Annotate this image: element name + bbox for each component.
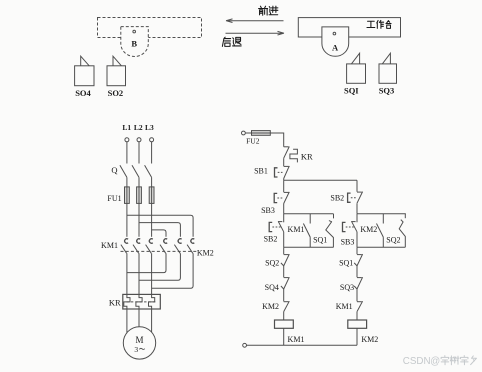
wire KM2 contact to coil KM1 (283, 312, 285, 320)
svg-text:FU2: FU2 (246, 137, 260, 146)
svg-text:SQ3: SQ3 (379, 86, 395, 96)
workbench rectangle (solid, right position) (298, 18, 400, 37)
svg-text:KM1: KM1 (101, 241, 118, 250)
wire coil KM2 to bottom rail (356, 328, 358, 345)
svg-text:SQ4: SQ4 (265, 283, 279, 292)
svg-text:KM2: KM2 (361, 335, 378, 344)
wires from Q to fuses FU1 (126, 177, 128, 187)
label gongzuotai (workbench) (367, 21, 375, 27)
arrow forward (qianjin), pointing left (226, 19, 284, 23)
contactor KM1 main contacts (3 poles) (125, 239, 128, 243)
svg-text:KM1: KM1 (288, 335, 305, 344)
wire KR to SB1 (283, 158, 285, 166)
svg-text:KM2: KM2 (262, 302, 279, 311)
wires from terminals to switch Q (126, 142, 128, 164)
svg-text:SB1: SB1 (254, 166, 268, 175)
svg-text:L1: L1 (122, 123, 131, 132)
wire SB2 to parallel section B (356, 203, 358, 214)
start button SB3 (NO, forward) (283, 180, 285, 192)
rail from left rung to right rung (top) (284, 179, 357, 181)
wire SB3 to parallel section A (283, 204, 285, 214)
crossover wire phase1 to KM2 pole3 (127, 215, 193, 237)
svg-text:SQ1: SQ1 (313, 236, 327, 245)
svg-text:SB3: SB3 (341, 237, 355, 246)
switch Q (3-pole knife switch) (120, 165, 127, 177)
svg-text:KR: KR (109, 298, 121, 308)
label houtui (backward) (222, 37, 230, 46)
parallel section B top rail (357, 213, 406, 215)
svg-text:FU1: FU1 (107, 194, 121, 203)
cam dog B (dashed) (121, 27, 149, 57)
svg-text:CSDN: CSDN (403, 356, 431, 367)
KR heater elements (3 meanders) (124, 294, 130, 309)
svg-text:SQI: SQI (344, 86, 359, 96)
thermal overload relay KR (heater box) (123, 294, 161, 309)
parallel section B bottom rail (357, 246, 405, 248)
limit switch SQ3 (box with lever) (379, 64, 397, 83)
self-hold contact KM2 (NO) (382, 214, 384, 224)
KM1 pole output wires down to KR (126, 253, 128, 294)
motor M 3~ (123, 327, 155, 359)
limit switch contact SQ2 (NO chevron) (404, 214, 406, 218)
svg-text:3: 3 (134, 345, 138, 354)
limit switch SQ2 contact (NC) in rung A (283, 247, 285, 254)
svg-text:SQ3: SQ3 (340, 283, 354, 292)
svg-text:KM1: KM1 (336, 302, 353, 311)
bottom rail (247, 344, 358, 346)
phase wires below fuses feeding KM1 poles (126, 203, 128, 236)
svg-text:SB2: SB2 (264, 234, 278, 243)
svg-text:SB3: SB3 (261, 206, 275, 215)
wire SB1 to junction (283, 179, 285, 181)
compound button SB2 contact (NC) in rung A (283, 214, 285, 223)
control supply terminal (bottom) (243, 343, 247, 347)
svg-text:SQ2: SQ2 (386, 236, 400, 245)
fuse FU1 (three cartridges) (125, 187, 130, 204)
wire FU2 to left rung (270, 133, 283, 147)
wire SB2 contact to bottom rail A (283, 232, 285, 248)
crossover wire phase3 to KM2 pole1 (152, 230, 166, 237)
svg-text:B: B (131, 39, 137, 49)
svg-text:L2: L2 (134, 123, 143, 132)
svg-text:L3: L3 (145, 123, 154, 132)
wire SQ1 to SQ3 (356, 266, 358, 277)
limit switch SQ1 contact (NC) in rung B (356, 247, 358, 254)
svg-text:KM2: KM2 (360, 225, 377, 234)
svg-text:A: A (332, 42, 339, 52)
watermark yushuyuxi (441, 356, 449, 365)
wire KM1 contact to coil KM2 (356, 312, 358, 320)
stop button SB1 (NC) (284, 165, 289, 167)
parallel section A top rail (284, 213, 334, 215)
svg-text:Q: Q (111, 165, 117, 175)
workbench outline (dashed, left end position) (98, 18, 202, 38)
thermal relay contact KR (NC) in control line (284, 146, 289, 148)
fuse FU2 (252, 131, 271, 136)
svg-text:SB2: SB2 (330, 194, 344, 203)
self-hold contact KM1 (NO) (309, 214, 311, 224)
cam dog A (solid) (322, 27, 349, 56)
limit switch SQ4 (box with lever) (75, 66, 94, 86)
svg-text:@: @ (430, 356, 440, 367)
svg-text:KM2: KM2 (197, 249, 214, 258)
contactor KM2 main contacts (3 poles) (164, 239, 167, 243)
svg-text:SQ1: SQ1 (339, 259, 353, 268)
svg-text:SQ2: SQ2 (265, 259, 279, 268)
svg-text:SO4: SO4 (75, 88, 91, 98)
crossover wire phase2 to KM2 pole2 (139, 223, 180, 237)
parallel section A bottom rail (284, 246, 334, 248)
pivot hole on cam A (333, 32, 336, 35)
limit switch SQ1 (box with lever) (347, 64, 366, 83)
label qianjin (forward) (259, 6, 268, 15)
limit switch SQ4 contact (NC) (284, 277, 289, 279)
coil KM1 (275, 320, 294, 328)
limit switch SQ3 contact (NC) (357, 277, 362, 279)
KR internal dashed link (127, 301, 156, 303)
coil KM2 (348, 320, 367, 328)
wire SQ3 to KM1 interlock (356, 289, 358, 301)
wire SQ4 to KM2 interlock (283, 289, 285, 301)
compound button SB3 contact (NC) in rung B (356, 214, 358, 223)
wire SB3 contact to bottom rail B (356, 232, 358, 248)
KM2 pole3 output merging to phase3 column (152, 253, 194, 288)
right rung: start button SB2 (NO, backward) (356, 180, 358, 192)
svg-text:KR: KR (301, 152, 313, 162)
svg-text:KM1: KM1 (288, 225, 305, 234)
supply terminals L1 L2 L3 (125, 138, 129, 142)
svg-text:M: M (135, 335, 143, 345)
limit switch SQ2 (box with lever) (107, 66, 126, 86)
wires from KR to motor (126, 309, 128, 333)
limit switch contact SQ1 (NO chevron) (333, 214, 335, 219)
mechanical linkage dashed line across contacts (121, 250, 197, 252)
control supply terminal (top) (242, 131, 246, 135)
svg-text:SO2: SO2 (108, 88, 124, 98)
wire coil KM1 to bottom rail (283, 328, 285, 345)
interlock contact KM1 (NC) (357, 301, 362, 303)
wire SQ2 to SQ4 (283, 266, 285, 277)
arrow backward (houtui), pointing right (226, 31, 285, 35)
interlock contact KM2 (NC) (284, 301, 289, 303)
KM2 pole1 output merging to phase1 column (127, 253, 166, 272)
pivot hole on cam B (133, 30, 136, 33)
KM2 pole2 output merging to phase2 column (139, 253, 180, 280)
wire terminal to FU2 (245, 132, 251, 134)
